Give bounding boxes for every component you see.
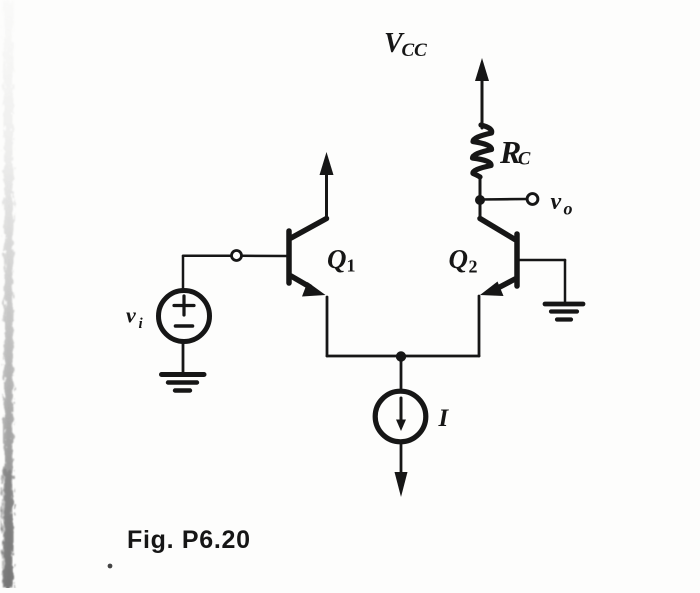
- svg-text:Fig. P6.20: Fig. P6.20: [127, 526, 251, 554]
- svg-text:o: o: [564, 199, 573, 219]
- svg-text:Q: Q: [449, 244, 469, 274]
- svg-text:1: 1: [347, 256, 356, 276]
- svg-text:Q: Q: [327, 244, 347, 274]
- svg-text:C: C: [518, 150, 531, 170]
- svg-text:2: 2: [469, 257, 478, 277]
- svg-text:I: I: [438, 405, 450, 432]
- svg-text:CC: CC: [402, 40, 428, 61]
- svg-text:v: v: [126, 303, 136, 328]
- svg-text:v: v: [551, 189, 562, 215]
